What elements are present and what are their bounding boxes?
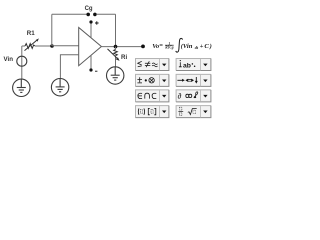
wire feedback top left [52, 13, 87, 15]
svg-text:Vin: Vin [4, 56, 14, 63]
button relational [135, 58, 169, 71]
svg-text:∂: ∂ [178, 91, 182, 100]
capacitor Cg [86, 13, 90, 17]
svg-text:): ) [209, 43, 212, 50]
palette buttons [135, 58, 211, 118]
svg-text:ab: ab [183, 62, 191, 69]
svg-text:R1: R1 [27, 30, 35, 37]
ground G3 [107, 67, 124, 84]
button misc [176, 89, 212, 102]
wire Vin vertical [21, 46, 23, 79]
pin V+ [90, 22, 92, 38]
wire non-inverting input [60, 55, 78, 79]
button operators [135, 74, 169, 87]
svg-text:(Vin: (Vin [181, 43, 193, 50]
wire feedback right vertical [115, 14, 117, 46]
button spaces [176, 58, 212, 71]
button arrows [176, 74, 212, 87]
button set theory [135, 89, 169, 102]
arrow Ri [108, 49, 118, 59]
node output junction [114, 45, 118, 49]
node A [50, 44, 54, 48]
op-amp U1 [79, 28, 102, 66]
ground G1 [13, 79, 30, 96]
equation Vo [152, 38, 212, 52]
svg-text:R1Cg: R1Cg [165, 46, 174, 50]
terminal output [141, 45, 145, 49]
svg-text:=: = [159, 43, 163, 50]
wire R1 lead [22, 45, 25, 47]
svg-text:Cg: Cg [85, 6, 93, 12]
resistor R1 [25, 44, 35, 49]
button fraction and radical [176, 105, 212, 118]
svg-text:+: + [200, 43, 204, 50]
svg-text:dt: dt [195, 45, 199, 50]
wire node A to op-amp [52, 45, 79, 47]
svg-text:Ri: Ri [121, 54, 127, 61]
arrow R1 [25, 40, 38, 51]
wire feedback top right [96, 13, 115, 15]
pin V- [90, 56, 92, 71]
button fences [135, 105, 169, 118]
wire output [101, 46, 143, 48]
source Vin [17, 56, 27, 66]
ground G2 [51, 79, 68, 96]
resistor Ri [115, 47, 117, 50]
wire feedback left vertical [51, 14, 53, 46]
wire R1 to node A [35, 45, 52, 47]
